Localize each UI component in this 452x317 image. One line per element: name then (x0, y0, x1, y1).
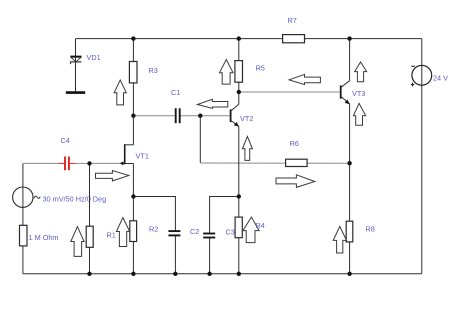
svg-text:R6: R6 (290, 139, 299, 148)
svg-text:30 mV/50 Hz/0 Deg: 30 mV/50 Hz/0 Deg (43, 195, 107, 204)
node rail R2 (131, 272, 135, 276)
arrow A5 left (above VT2 base) (198, 99, 228, 108)
node top VT3 (347, 36, 351, 40)
wire C1 node down (199, 116, 201, 163)
svg-text:C4: C4 (61, 136, 70, 145)
wire node A vertical through R1 (89, 163, 91, 273)
svg-text:VT3: VT3 (352, 89, 365, 98)
wire node C to C3 stub (210, 197, 239, 234)
ground (66, 91, 85, 94)
arrow A9 right (above rail, R6 area) (276, 175, 315, 188)
wire overlay node A vertical crossing source label (89, 190, 91, 208)
wire C4 to node A gray (75, 162, 90, 164)
wire C1 left lead (133, 115, 174, 117)
wire VD1 branch (75, 39, 77, 92)
wire C1 right lead (181, 115, 201, 117)
arrow A6 up (VT3 emitter) (353, 103, 365, 125)
wire node B to C2 stub (133, 197, 175, 231)
wire C3 bottom to rail (209, 238, 211, 274)
transistor VT1 (JFET) (120, 144, 134, 165)
svg-text:R4: R4 (256, 221, 265, 230)
resistor R7 (283, 35, 305, 43)
resistor R6 (286, 159, 308, 166)
wire VT2 base (200, 115, 230, 117)
wire source AC lead gray (23, 162, 59, 164)
node B (VT1 source) (131, 194, 135, 198)
node top R5 (237, 36, 241, 40)
wire R5 branch (238, 39, 240, 92)
node R3 bottom (131, 114, 135, 118)
resistor R8 (346, 221, 353, 242)
node rail C3 (207, 272, 211, 276)
resistor R2 (130, 221, 137, 242)
wire R6 line (200, 162, 349, 164)
arrow A12 up (on R4) (243, 217, 259, 243)
wire VT2 emitter down through R4 (238, 126, 240, 274)
wire VT1 source down to node (132, 164, 134, 197)
svg-text:R2: R2 (149, 225, 158, 234)
svg-text:R8: R8 (366, 225, 375, 234)
resistor R4 (235, 217, 242, 238)
svg-text:C3: C3 (226, 228, 235, 237)
diode VD1 (zener) (70, 57, 81, 65)
source 24 V (411, 65, 432, 86)
arrow A13 up (left of R8) (333, 226, 346, 253)
svg-text:VT1: VT1 (136, 151, 149, 160)
arrow A1 up (left of R3) (114, 80, 126, 105)
node rail C2 (173, 272, 177, 276)
wire C4 red leads (59, 162, 76, 164)
svg-text:R7: R7 (288, 16, 297, 25)
capacitor C2 (168, 231, 180, 235)
wire VT1 drain (132, 116, 134, 145)
wire VT3 base line (239, 91, 340, 93)
svg-text:VD1: VD1 (87, 53, 101, 62)
wire VT2 collector vertical (238, 92, 240, 104)
node C (VT2 emitter) (237, 194, 241, 198)
transistor VT3 (341, 81, 350, 105)
source AC 30mV (13, 187, 41, 207)
wire VT1 gate (90, 162, 125, 164)
wire R3 branch (132, 39, 134, 116)
node rail R1 (87, 272, 91, 276)
node rail R8 (347, 272, 351, 276)
wire C2 bottom to rail (174, 236, 176, 274)
capacitor C3 (203, 234, 215, 238)
arrow A8 right (below VT1) (96, 171, 129, 181)
resistor R5 (235, 61, 243, 83)
node VT3 emitter / R6 (347, 161, 351, 165)
wire VT3 collector branch (349, 39, 351, 81)
wire right rail (421, 39, 423, 274)
arrow A7 up (VT2 emitter) (242, 136, 252, 160)
wire left branch: source to C4 level (22, 163, 24, 273)
wire node B down through R2 (132, 197, 134, 274)
transistor VT2 (231, 104, 239, 126)
arrow A10 up (left of R1) (71, 227, 84, 257)
wire VT3 emitter down through R8 (349, 104, 351, 274)
node A (gate) (87, 161, 91, 165)
node VT2 collector (237, 90, 241, 94)
arrow A4 up (VT3 collector) (355, 62, 367, 82)
arrow A2 up (left of R5) (220, 60, 234, 85)
svg-text:C2: C2 (190, 227, 199, 236)
svg-text:R5: R5 (256, 64, 265, 73)
node rail R4 (237, 272, 241, 276)
svg-text:C1: C1 (171, 88, 180, 97)
arrow A11 up (left of R2) (116, 218, 129, 247)
svg-text:R3: R3 (149, 66, 158, 75)
arrow A3 left (above VT3 base) (289, 74, 320, 84)
capacitor C4 (red) (65, 157, 69, 171)
svg-text:24 V: 24 V (433, 73, 448, 82)
resistor R3 (129, 62, 137, 83)
svg-text:1 M Ohm: 1 M Ohm (29, 233, 59, 242)
resistor 1 M Ohm (20, 225, 28, 246)
node C1 right (198, 114, 202, 118)
svg-text:VT2: VT2 (240, 114, 253, 123)
capacitor C1 (176, 108, 180, 123)
node top R3 (131, 36, 135, 40)
wire bottom rail (23, 273, 422, 275)
resistor R1 (86, 226, 93, 247)
wire top rail (76, 38, 422, 40)
svg-text:R1: R1 (107, 231, 116, 240)
